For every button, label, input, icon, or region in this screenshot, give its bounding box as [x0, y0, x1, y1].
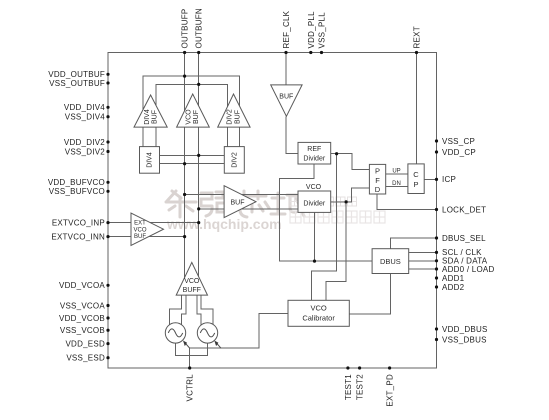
junction OUTBUFP / DIV row2: [183, 162, 186, 165]
svg-text:DIV2: DIV2: [227, 109, 234, 125]
wire REF Divider bottom to DBUS row: [280, 164, 373, 261]
svg-text:VSS_DBUS: VSS_DBUS: [442, 335, 487, 344]
pin EXTVCO_INP: [106, 221, 109, 224]
buffer VCO BUF: [177, 94, 210, 127]
box CP: [408, 164, 424, 194]
pin VSS_DIV2: [106, 150, 109, 153]
junction dots: [183, 75, 348, 263]
svg-text:BUF: BUF: [279, 94, 293, 101]
buffer BUF (ref clock): [271, 85, 302, 116]
pin ADD1: [435, 276, 438, 279]
svg-text:VCO: VCO: [306, 184, 322, 191]
buffer VCO BUFF: [176, 262, 207, 295]
svg-text:UP: UP: [392, 168, 400, 174]
pin dots: [106, 51, 438, 370]
svg-text:DBUS: DBUS: [380, 257, 401, 266]
buffer BUF (vco to divider): [224, 186, 256, 218]
svg-text:VDD_ESD: VDD_ESD: [65, 339, 105, 348]
junction VCO divider output tap: [345, 200, 348, 203]
svg-text:BUF: BUF: [134, 234, 146, 240]
wire PFD UP to CP: [386, 173, 408, 175]
svg-text:VSS_OUTBUF: VSS_OUTBUF: [49, 79, 105, 88]
wire buff leg inner-right: [197, 295, 201, 325]
oscillator VCO A: [165, 323, 185, 343]
component texts: [133, 94, 419, 323]
pin VDD_PLL: [309, 51, 312, 54]
pin LOCK_DET: [435, 208, 438, 211]
svg-text:VCO: VCO: [310, 304, 326, 313]
svg-text:OUTBUFP: OUTBUFP: [181, 9, 190, 49]
right pin labels: [442, 137, 495, 344]
divider DIV2: [224, 147, 244, 174]
chip boundary: [108, 53, 437, 369]
pin VDD_DIV2: [106, 140, 109, 143]
svg-text:Divider: Divider: [303, 201, 325, 208]
svg-text:VSS_BUFVCO: VSS_BUFVCO: [49, 187, 105, 196]
svg-text:VSS_VCOB: VSS_VCOB: [60, 326, 105, 335]
pin VDD_DBUS: [435, 327, 438, 330]
varactor arrow A: [184, 342, 190, 348]
wire OUTBUFN vertical: [198, 53, 200, 293]
wire EXTVCO_INN: [108, 236, 185, 238]
watermark big hanzi (drawn as strokes): [166, 191, 305, 217]
svg-text:BUF: BUF: [234, 110, 241, 124]
svg-text:LOCK_DET: LOCK_DET: [442, 205, 486, 214]
pin VSS_VCOA: [106, 304, 109, 307]
svg-text:TEST1: TEST1: [344, 374, 353, 400]
svg-text:VCO: VCO: [185, 109, 192, 125]
buffer DIV2 BUF: [218, 94, 250, 127]
svg-text:D: D: [375, 185, 381, 194]
junction REF divider output tap: [335, 152, 338, 155]
svg-text:EXT: EXT: [134, 221, 146, 227]
svg-text:C: C: [413, 170, 419, 179]
pin VDD_VCOA: [106, 284, 109, 287]
junction DBUS row / VCO divider: [313, 260, 316, 263]
buffer DIV4 BUF: [134, 95, 167, 127]
junction OUTBUFN / DIV row1: [197, 154, 200, 157]
svg-text:VSS_DIV2: VSS_DIV2: [65, 147, 106, 156]
svg-text:DIV4: DIV4: [144, 109, 151, 125]
svg-text:VSS_ESD: VSS_ESD: [66, 354, 105, 363]
svg-text:VDD_VCOB: VDD_VCOB: [59, 314, 105, 323]
wire buff leg outer-left: [170, 295, 182, 325]
pin EXTVCO_INN: [106, 235, 109, 238]
wire SCL/CLK: [409, 251, 437, 253]
pin VDD_VCOB: [106, 316, 109, 319]
pin VSS_DBUS: [435, 338, 438, 341]
svg-text:F: F: [375, 176, 380, 185]
left pin labels: [48, 70, 106, 363]
pin TEST1: [346, 366, 349, 369]
pin REXT: [415, 51, 418, 54]
svg-text:VDD_DIV2: VDD_DIV2: [64, 138, 105, 147]
wire VCO tank bottom U: [176, 343, 208, 355]
pin ICP: [435, 178, 438, 181]
svg-text:VDD_DBUS: VDD_DBUS: [442, 325, 488, 334]
wire VCO Divider bottom to DBUS row: [314, 212, 316, 261]
svg-text:www.hqchip.com: www.hqchip.com: [166, 216, 282, 232]
pin VSS_CP: [435, 139, 438, 142]
wire REF tap to calibrator: [312, 154, 337, 301]
pin VDD_DIV4: [106, 106, 109, 109]
svg-text:P: P: [413, 180, 418, 189]
svg-text:VDD_VCOA: VDD_VCOA: [59, 281, 105, 290]
svg-text:EXTVCO_INN: EXTVCO_INN: [51, 232, 105, 241]
svg-text:VCO: VCO: [133, 227, 146, 233]
pin VSS_OUTBUF: [106, 81, 109, 84]
junction OUTBUFP / EXTVCO_INN: [183, 235, 186, 238]
svg-text:VSS_DIV4: VSS_DIV4: [65, 113, 106, 122]
pin DBUS_SEL: [435, 236, 438, 239]
pin SCL/CLK: [435, 251, 438, 254]
svg-text:ICP: ICP: [442, 175, 456, 184]
svg-text:DIV2: DIV2: [231, 152, 238, 168]
svg-text:VCO: VCO: [184, 278, 200, 285]
svg-text:ADD1: ADD1: [442, 274, 465, 283]
box DBUS: [372, 249, 409, 274]
pin VDD_OUTBUF: [106, 73, 109, 76]
divider DIV4: [140, 147, 160, 174]
wire calibrator to DBUS: [349, 274, 390, 315]
pin VSS_ESD: [106, 356, 109, 359]
svg-text:BUF: BUF: [152, 110, 159, 124]
pin ADD2: [435, 285, 438, 288]
svg-text:OUTBUFN: OUTBUFN: [195, 8, 204, 48]
wire PFD DN to CP: [386, 186, 408, 188]
wire buff leg inner-left: [182, 295, 186, 325]
pin SDA/DATA: [435, 259, 438, 262]
sine in oscillator B: [200, 329, 214, 337]
box REF Divider: [298, 142, 331, 164]
pin TEST2: [358, 366, 361, 369]
wire REF_CLK to BUF: [285, 53, 287, 86]
wire REXT to CP: [416, 53, 418, 164]
svg-text:VDD_DIV4: VDD_DIV4: [64, 103, 105, 112]
wire DIV4-DIV2 row2: [160, 163, 225, 165]
pin VDD_BUFVCO: [106, 181, 109, 184]
wire BUF to REF Divider: [286, 116, 298, 153]
junction OUTBUFN / top bus B: [197, 83, 200, 86]
svg-text:VDD_BUFVCO: VDD_BUFVCO: [48, 178, 105, 187]
svg-text:VDD_OUTBUF: VDD_OUTBUF: [48, 70, 105, 79]
pin VSS_VCOB: [106, 329, 109, 332]
wire VCO tap to calibrator: [326, 202, 346, 300]
svg-text:REF_CLK: REF_CLK: [282, 10, 291, 48]
wire top bus A: [143, 76, 240, 147]
pin VSS_BUFVCO: [106, 190, 109, 193]
svg-text:VDD_PLL: VDD_PLL: [307, 11, 316, 49]
pin ADD0/LOAD: [435, 267, 438, 270]
wire VCO Divider to PFD: [331, 188, 370, 202]
box PFD: [369, 164, 385, 194]
arrowhead B: [214, 341, 218, 347]
svg-text:BUFF: BUFF: [183, 287, 201, 294]
pin REF_CLK: [284, 51, 287, 54]
wire VCO divider input P: [185, 194, 298, 196]
svg-text:REF: REF: [307, 146, 321, 153]
pin OUTBUFP: [183, 51, 186, 54]
pin EXT_PD: [388, 366, 391, 369]
wire DBUS_SEL: [391, 238, 437, 249]
svg-text:P: P: [375, 167, 380, 176]
oscillator VCO B: [197, 323, 217, 343]
wire DIV4-DIV2 row1: [160, 154, 225, 156]
watermark right line2 (small hanzi row): [290, 211, 385, 223]
svg-text:DN: DN: [392, 181, 401, 187]
pin VDD_ESD: [106, 342, 109, 345]
junction OUTBUFP / VCO divider input P: [183, 193, 186, 196]
bottom pin labels: [186, 374, 395, 407]
svg-text:Calibrator: Calibrator: [302, 314, 335, 323]
junction OUTBUFP / top bus A: [183, 75, 186, 78]
svg-text:VSS_VCOA: VSS_VCOA: [60, 301, 106, 310]
pin VCTRL: [188, 366, 191, 369]
pin VSS_DIV4: [106, 115, 109, 118]
wire VCO divider input N: [199, 208, 298, 210]
junction OUTBUFN / VCO divider input N: [197, 207, 200, 210]
svg-text:Divider: Divider: [303, 156, 325, 163]
junction OUTBUFN / EXTVCO_INP: [197, 221, 200, 224]
wire SDA/DATA: [409, 260, 437, 262]
wire EXTVCO_INP: [108, 222, 199, 224]
svg-text:BUF: BUF: [231, 200, 245, 207]
svg-text:REXT: REXT: [413, 26, 422, 48]
wire LOCK_DET: [377, 194, 437, 210]
arrowhead A: [183, 341, 187, 347]
svg-text:DBUS_SEL: DBUS_SEL: [442, 234, 486, 243]
wire VCTRL riser: [189, 348, 191, 368]
sine in oscillator A: [168, 329, 182, 337]
wire buff leg outer-right: [201, 295, 213, 325]
buffer EXT VCO BUF: [131, 213, 164, 245]
top pin labels: [181, 8, 422, 48]
wire calibrator to varactor line: [190, 314, 288, 349]
svg-text:ADD0 / LOAD: ADD0 / LOAD: [442, 265, 495, 274]
pin VSS_PLL: [320, 51, 323, 54]
svg-text:BUF: BUF: [193, 110, 200, 124]
svg-text:VSS_CP: VSS_CP: [442, 137, 475, 146]
box VCO Calibrator: [288, 300, 349, 326]
wire ICP: [424, 178, 436, 180]
svg-text:VSS_PLL: VSS_PLL: [318, 12, 327, 49]
pin OUTBUFN: [197, 51, 200, 54]
wire ADD0/LOAD: [409, 268, 437, 270]
wire top bus B: [156, 84, 227, 147]
box VCO Divider: [298, 191, 331, 212]
svg-text:VCTRL: VCTRL: [186, 374, 195, 402]
svg-text:EXTVCO_INP: EXTVCO_INP: [52, 218, 105, 227]
varactor arrow B: [216, 342, 222, 348]
watermark right line1 (small hanzi row): [290, 197, 357, 206]
svg-text:VDD_CP: VDD_CP: [442, 148, 476, 157]
svg-text:DIV4: DIV4: [147, 152, 154, 168]
svg-text:EXT_PD: EXT_PD: [386, 374, 395, 407]
svg-text:ADD2: ADD2: [442, 283, 465, 292]
wire REF Divider to PFD: [331, 154, 370, 170]
wire OUTBUFP vertical: [184, 53, 186, 293]
svg-text:TEST2: TEST2: [356, 374, 365, 400]
pin VDD_CP: [435, 150, 438, 153]
